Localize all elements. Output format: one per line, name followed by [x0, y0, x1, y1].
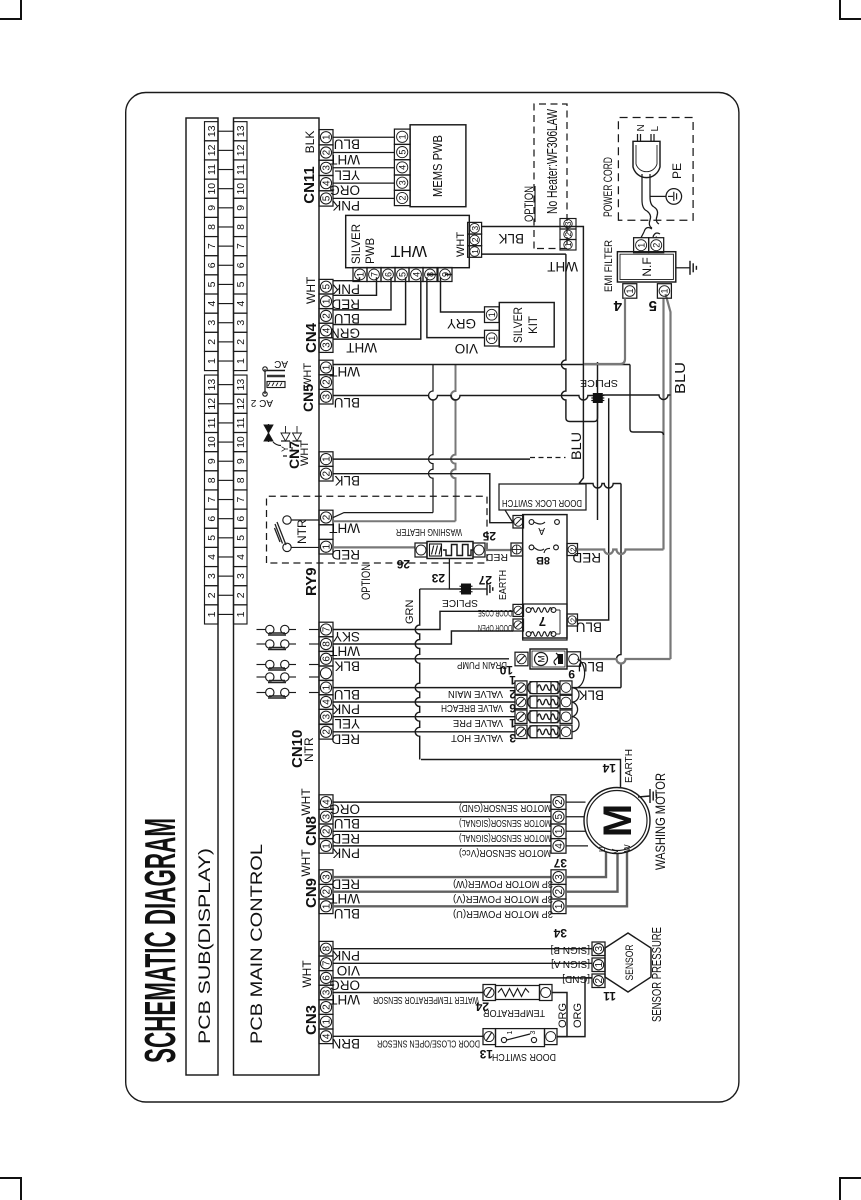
svg-text:9: 9 [206, 458, 218, 464]
svg-text:RED: RED [331, 731, 360, 746]
dashed option bracket near CN7 [283, 444, 292, 456]
svg-text:3: 3 [594, 946, 605, 952]
svg-text:W: W [623, 844, 632, 852]
door lock switch label callout box [499, 484, 586, 522]
svg-text:7: 7 [206, 496, 218, 502]
svg-text:WHT: WHT [302, 363, 314, 388]
svg-text:1: 1 [322, 456, 333, 462]
valve hot [515, 725, 527, 738]
wire CN8-4 ORG motor sensor GND [333, 801, 551, 803]
svg-text:2: 2 [652, 243, 662, 248]
svg-text:3: 3 [398, 180, 408, 185]
svg-text:BLU: BLU [334, 906, 360, 921]
svg-text:CN4: CN4 [303, 322, 320, 353]
EMI filter pin 5 [657, 284, 671, 299]
svg-text:14: 14 [602, 761, 616, 775]
svg-text:1: 1 [660, 288, 670, 293]
wire PE branch [650, 195, 666, 197]
wire CN10-3 YEL valve pre [333, 716, 515, 718]
connector CN7 [319, 466, 333, 481]
svg-text:SPLICE: SPLICE [580, 377, 618, 389]
PCB SUB connector cells group B pins 1-13 [205, 605, 219, 624]
svg-text:5: 5 [235, 535, 247, 541]
svg-text:ORG: ORG [557, 1003, 569, 1028]
svg-text:6: 6 [235, 262, 247, 268]
wire CN5-1 WHT main neutral [333, 364, 630, 366]
motor earth wire 14 [421, 760, 621, 789]
valve pre [515, 710, 527, 723]
svg-text:BLU: BLU [578, 659, 604, 674]
svg-text:3: 3 [322, 874, 333, 880]
svg-text:NTR: NTR [302, 737, 316, 762]
door lock pin B term 25 [511, 543, 523, 556]
svg-text:WHT: WHT [299, 441, 311, 466]
svg-text:BLK: BLK [334, 473, 360, 488]
svg-text:34: 34 [553, 926, 567, 940]
wire CN8-3 BLU motor sensor signal [333, 816, 551, 818]
wire door switch to sensor GND [557, 978, 592, 1037]
wire RY9-1 RED to heater [333, 546, 415, 548]
svg-text:AC: AC [274, 358, 288, 369]
svg-text:9: 9 [235, 205, 247, 211]
svg-text:VALVE PRE: VALVE PRE [453, 717, 503, 728]
connector CN3 [319, 1029, 333, 1044]
svg-text:MOTOR SENSOR(Vcc): MOTOR SENSOR(Vcc) [459, 847, 551, 858]
wire 34-3 to motor W [566, 852, 606, 878]
svg-text:7: 7 [322, 960, 333, 966]
wire drain pump BLU to EMI filter 5 [581, 659, 671, 664]
svg-text:23: 23 [431, 571, 445, 585]
drain pump bottom pin 9 [567, 652, 581, 666]
wire 37-5 to motor [566, 816, 585, 818]
svg-text:1: 1 [206, 358, 218, 364]
washing heater WASHING HEATER [415, 543, 427, 557]
svg-text:DOOR OPEN: DOOR OPEN [478, 622, 512, 633]
svg-text:12: 12 [206, 144, 218, 156]
svg-text:WHT: WHT [304, 276, 318, 304]
svg-text:WHT: WHT [329, 152, 360, 167]
svg-text:M: M [596, 804, 640, 837]
dashed OPTION box around RY9 and heater [267, 496, 488, 563]
door lock pin door open [513, 619, 524, 631]
svg-text:8: 8 [206, 224, 218, 230]
svg-text:KIT: KIT [528, 316, 540, 334]
corner crop mark bottom-left [0, 1178, 21, 1200]
valve common chain arcs [572, 717, 579, 732]
svg-text:1: 1 [322, 134, 333, 140]
svg-text:2: 2 [235, 592, 247, 598]
water temperature sensor TEMPERATOR [483, 985, 496, 1001]
wire CN8-1 PNK motor sensor Vcc [333, 845, 551, 847]
svg-text:MOTOR SENSOR(SIGNAL): MOTOR SENSOR(SIGNAL) [459, 817, 551, 828]
svg-text:5: 5 [206, 281, 218, 287]
svg-text:BLU: BLU [576, 620, 602, 635]
svg-text:10: 10 [235, 436, 247, 448]
svg-text:7: 7 [322, 626, 333, 632]
svg-text:OPTION: OPTION [359, 564, 373, 600]
svg-text:7: 7 [235, 243, 247, 249]
plug pin L [650, 134, 652, 141]
relay RY9 pins [319, 539, 333, 554]
svg-text:13: 13 [206, 125, 218, 137]
svg-text:M: M [537, 655, 547, 663]
svg-text:1: 1 [487, 336, 497, 341]
triac symbol near CN7 [268, 424, 270, 442]
svg-text:SILVER: SILVER [513, 307, 525, 343]
svg-text:6: 6 [235, 516, 247, 522]
power plug [633, 141, 660, 177]
svg-text:11: 11 [206, 164, 218, 175]
wire CN3-3 WHT [333, 992, 483, 994]
door lock pin A term [513, 516, 524, 529]
svg-text:3: 3 [530, 1031, 537, 1035]
svg-text:8B: 8B [536, 554, 550, 566]
wire 37-4 to motor [566, 845, 588, 847]
wire CN4-2 BLU to silver pwb 6 [333, 277, 391, 310]
svg-text:TEMPERATOR: TEMPERATOR [483, 1007, 545, 1018]
svg-text:9: 9 [206, 205, 218, 211]
wire silver pwb 9 GRY to silver kit [441, 275, 485, 313]
silver pwb box [346, 215, 470, 267]
svg-text:U: U [598, 846, 607, 852]
svg-text:PE: PE [670, 163, 684, 179]
svg-text:4: 4 [206, 300, 218, 306]
EMI filter pin 1 [634, 238, 649, 253]
svg-text:10: 10 [206, 183, 218, 195]
svg-text:3: 3 [470, 226, 480, 231]
wire heater to door lock B RED [485, 549, 511, 551]
wire CN10-4 PNK valve breach [333, 701, 515, 703]
svg-text:MEMS PWB: MEMS PWB [430, 135, 445, 197]
svg-text:1: 1 [322, 543, 333, 549]
svg-text:RED: RED [331, 296, 360, 311]
svg-text:BLK: BLK [578, 688, 604, 703]
svg-text:WHT: WHT [299, 849, 313, 877]
svg-text:2: 2 [235, 339, 247, 345]
door switch DOOR SWITCH [483, 1029, 496, 1045]
svg-text:PCB SUB(DISPLAY): PCB SUB(DISPLAY) [195, 848, 214, 1044]
splice SPLICE near door lock [593, 393, 603, 403]
wire CN4-3 WHT to silver pwb 4 [333, 277, 421, 339]
wire 37-1 to motor [566, 830, 586, 832]
svg-text:PNK: PNK [332, 198, 360, 213]
wire CN4-4 GRN to silver pwb 5 [333, 277, 406, 324]
svg-text:WHT: WHT [329, 992, 360, 1007]
svg-text:BLK: BLK [498, 231, 524, 246]
svg-text:11: 11 [235, 417, 247, 428]
svg-text:11: 11 [603, 989, 616, 1003]
svg-text:VALVE BREACH: VALVE BREACH [441, 702, 503, 713]
svg-text:V: V [611, 848, 620, 854]
svg-text:ORG: ORG [329, 977, 360, 992]
power cord cable [642, 174, 647, 211]
svg-text:DOOR LOCK SWITCH: DOOR LOCK SWITCH [502, 497, 582, 509]
heater earth tap wire [449, 559, 461, 590]
door lock coil 1 [526, 608, 531, 613]
svg-text:4: 4 [322, 699, 333, 705]
wire CN7-2 BLK to door lock A [333, 474, 513, 523]
svg-text:1: 1 [470, 249, 480, 254]
svg-text:2: 2 [322, 514, 333, 520]
svg-text:5: 5 [397, 272, 407, 277]
svg-text:2: 2 [206, 592, 218, 598]
EMI filter earth [676, 267, 690, 269]
svg-text:5: 5 [398, 150, 408, 155]
svg-text:RED: RED [331, 831, 360, 846]
relay RY9 contact symbol [283, 543, 291, 551]
drain pump [530, 649, 567, 669]
svg-text:WHT: WHT [346, 340, 377, 355]
svg-text:WHT: WHT [329, 364, 360, 379]
wire CN9-1 BLU 3P motor power U [333, 905, 551, 907]
wire silver pwb 8 VIO to silver kit [427, 275, 485, 338]
svg-text:MOTOR SENSOR(SIGNAL): MOTOR SENSOR(SIGNAL) [459, 832, 551, 843]
svg-text:BRN: BRN [331, 1036, 360, 1051]
connector 11 pressure sensor pins [592, 974, 605, 988]
svg-text:L: L [650, 126, 661, 132]
svg-text:1: 1 [625, 288, 635, 293]
svg-text:WHT: WHT [300, 960, 314, 988]
svg-text:CN3: CN3 [303, 1005, 320, 1035]
svg-text:OPTION: OPTION [522, 186, 536, 222]
svg-text:SENSOR PRESSURE: SENSOR PRESSURE [649, 927, 664, 1022]
svg-text:PNK: PNK [332, 702, 360, 717]
svg-text:4: 4 [613, 297, 622, 314]
svg-text:13: 13 [479, 1047, 493, 1061]
door lock pin door close [513, 604, 524, 616]
dashed no heater option box [534, 104, 567, 249]
svg-text:13: 13 [235, 125, 247, 137]
silver kit box [499, 303, 554, 347]
svg-text:VALVE HOT: VALVE HOT [451, 732, 503, 743]
connector CN11 [319, 191, 333, 206]
wire door lock B RED to EMI [578, 550, 664, 555]
svg-text:AC 2: AC 2 [250, 397, 273, 408]
wire CN9-2 WHT 3P motor power V [333, 891, 551, 893]
svg-text:2: 2 [554, 888, 565, 894]
heater earth symbol 27 [471, 588, 487, 590]
svg-text:BLK: BLK [334, 658, 360, 673]
svg-text:YEL: YEL [334, 167, 360, 182]
silver kit pin 1 top [485, 307, 500, 323]
svg-text:3: 3 [322, 713, 333, 719]
svg-text:2: 2 [470, 237, 480, 242]
diode pair symbol near CN7 [281, 433, 290, 441]
svg-text:8: 8 [235, 224, 247, 230]
svg-text:7: 7 [206, 243, 218, 249]
svg-text:DOOR SWITCH: DOOR SWITCH [492, 1051, 556, 1062]
svg-text:2: 2 [594, 978, 605, 984]
svg-text:1: 1 [322, 684, 333, 690]
PCB SUB connector cells group A pins 1-13 [205, 351, 219, 370]
svg-text:37: 37 [553, 856, 567, 870]
svg-text:SPLICE: SPLICE [442, 597, 478, 609]
wire 37-2 to motor [566, 801, 586, 803]
svg-text:1: 1 [636, 243, 646, 248]
svg-text:N.F: N.F [640, 257, 654, 276]
svg-text:1: 1 [235, 611, 247, 617]
svg-text:4: 4 [206, 554, 218, 560]
relay contacts on board above CN10 [257, 629, 266, 631]
svg-text:2: 2 [398, 195, 408, 200]
corner crop mark top-right [840, 0, 861, 19]
PCB MAIN CONTROL board [234, 118, 320, 1075]
svg-text:CN11: CN11 [301, 166, 318, 204]
svg-text:1: 1 [322, 1018, 333, 1024]
svg-text:12: 12 [206, 398, 218, 410]
svg-text:1: 1 [487, 312, 497, 317]
svg-text:BLU: BLU [334, 395, 360, 410]
wire CN3-4 BRN [333, 1035, 483, 1037]
svg-text:BLU: BLU [568, 432, 584, 460]
svg-text:5: 5 [235, 281, 247, 287]
svg-text:SKY: SKY [333, 629, 360, 644]
svg-text:3: 3 [322, 342, 333, 348]
connector CN9 [319, 899, 333, 914]
svg-text:2: 2 [322, 313, 333, 319]
wire splice to door lock [597, 403, 599, 520]
wire CN3-6 ORG [333, 977, 592, 979]
svg-text:25: 25 [482, 529, 496, 543]
svg-text:13: 13 [206, 379, 218, 391]
svg-text:10: 10 [206, 436, 218, 448]
svg-text:SCHEMATIC DIAGRAM: SCHEMATIC DIAGRAM [136, 818, 185, 1063]
svg-text:3P MOTOR POWER(U): 3P MOTOR POWER(U) [453, 908, 553, 919]
wire RY9-2 WHT thin option [333, 513, 433, 518]
svg-text:1: 1 [235, 358, 247, 364]
svg-text:3: 3 [235, 320, 247, 326]
svg-text:[SIGN B]: [SIGN B] [550, 944, 590, 955]
wire CN8-2 RED motor sensor signal [333, 830, 551, 832]
svg-text:PNK: PNK [332, 282, 360, 297]
svg-text:1: 1 [507, 1031, 514, 1035]
svg-text:3: 3 [554, 874, 565, 880]
svg-text:WHT: WHT [299, 788, 313, 816]
svg-text:1: 1 [322, 843, 333, 849]
svg-text:GRY: GRY [447, 316, 476, 331]
svg-text:RED: RED [485, 551, 508, 563]
svg-text:Y: Y [280, 446, 290, 452]
svg-text:[SIGN A]: [SIGN A] [551, 958, 590, 969]
svg-text:2: 2 [564, 232, 573, 237]
svg-text:6: 6 [383, 272, 393, 277]
door lock B contact [529, 545, 534, 550]
connector CN5 [319, 389, 333, 404]
wire CN3-7 VIO [333, 962, 592, 964]
svg-text:3P MOTOR POWER(W): 3P MOTOR POWER(W) [453, 878, 553, 889]
connector 34 [551, 899, 566, 914]
svg-text:CN9: CN9 [303, 878, 320, 908]
svg-text:ORG: ORG [572, 1003, 584, 1028]
svg-text:VIO: VIO [455, 341, 478, 356]
wires between PCB SUB and PCB MAIN cells [218, 613, 234, 615]
valve main [515, 681, 527, 694]
wire 34-1 to motor U [566, 852, 627, 906]
wire CN10-1 BLU valve main [333, 687, 515, 689]
svg-text:8: 8 [206, 477, 218, 483]
no heater option connector WHT 1 2 3 [560, 240, 576, 251]
svg-text:PNK: PNK [332, 845, 360, 860]
svg-text:BLU: BLU [334, 687, 360, 702]
valve breach [515, 695, 527, 708]
svg-text:27: 27 [478, 573, 492, 587]
svg-text:EMI FILTER: EMI FILTER [603, 240, 615, 292]
door lock pin coil bottom 2 [567, 614, 578, 626]
svg-text:2: 2 [322, 828, 333, 834]
svg-text:5: 5 [554, 813, 565, 819]
svg-text:2: 2 [322, 470, 333, 476]
corner crop mark bottom-right [840, 1178, 861, 1200]
svg-text:3: 3 [564, 221, 573, 226]
svg-text:NTR: NTR [295, 519, 309, 544]
PE earth circle [666, 189, 682, 205]
wire CN4-1 RED to silver pwb 7 [333, 277, 377, 295]
svg-text:BLU: BLU [334, 311, 360, 326]
wire CN10-7 SKY door close [333, 611, 513, 629]
svg-text:CN8: CN8 [303, 816, 320, 846]
svg-text:12: 12 [235, 398, 247, 410]
svg-text:8: 8 [322, 945, 333, 951]
svg-text:12: 12 [235, 144, 247, 156]
svg-text:WASHING MOTOR: WASHING MOTOR [652, 773, 668, 870]
PCB SUB(DISPLAY) board [186, 118, 218, 1075]
wire CN10-2 RED valve hot [333, 731, 515, 733]
svg-text:1: 1 [398, 134, 408, 139]
svg-text:4: 4 [235, 300, 247, 306]
wire CN10-8 WHT door open [333, 631, 513, 644]
door lock switch box [523, 515, 567, 638]
wire EMI-4 gray [584, 298, 625, 364]
power cord to EMI arcs [644, 228, 652, 232]
svg-text:4: 4 [322, 1033, 333, 1039]
svg-text:EARTH: EARTH [498, 570, 509, 600]
svg-text:10: 10 [499, 663, 513, 677]
svg-text:3: 3 [235, 573, 247, 579]
svg-text:4: 4 [411, 272, 421, 277]
svg-text:9: 9 [568, 667, 575, 681]
svg-text:1: 1 [554, 903, 565, 909]
svg-text:DOOR CLOSE/OPEN SNESOR: DOOR CLOSE/OPEN SNESOR [377, 1038, 480, 1049]
relay symbol near CN5 [264, 369, 266, 394]
EMI filter box N.F [617, 252, 675, 282]
svg-text:2: 2 [322, 729, 333, 735]
svg-text:WHT: WHT [547, 259, 578, 274]
silver pwb right pins 1 2 3 [468, 246, 482, 258]
corner crop mark top-left [0, 0, 21, 19]
wire CN4-5 PNK to silver pwb 1 [333, 277, 360, 281]
door lock coil box 7 [523, 604, 567, 640]
svg-text:VIO: VIO [337, 963, 360, 978]
svg-text:No Heater:WF306LAW: No Heater:WF306LAW [545, 109, 561, 214]
svg-text:PNK: PNK [332, 948, 360, 963]
svg-text:SILVER: SILVER [351, 224, 363, 264]
EMI filter pin 4 [623, 284, 637, 299]
svg-text:4: 4 [398, 165, 408, 170]
wire CN3-8 PNK [333, 948, 592, 950]
svg-text:1: 1 [554, 828, 565, 834]
svg-text:A: A [538, 525, 545, 536]
svg-text:N: N [636, 124, 647, 131]
svg-text:3: 3 [206, 320, 218, 326]
svg-text:SENSOR: SENSOR [624, 944, 636, 980]
svg-text:1: 1 [322, 298, 333, 304]
svg-text:11: 11 [235, 164, 247, 175]
svg-text:ORG: ORG [329, 183, 360, 198]
svg-text:10: 10 [235, 183, 247, 195]
svg-text:WASHING HEATER: WASHING HEATER [396, 526, 462, 537]
svg-text:7: 7 [369, 272, 379, 277]
connector 37 [551, 839, 566, 854]
